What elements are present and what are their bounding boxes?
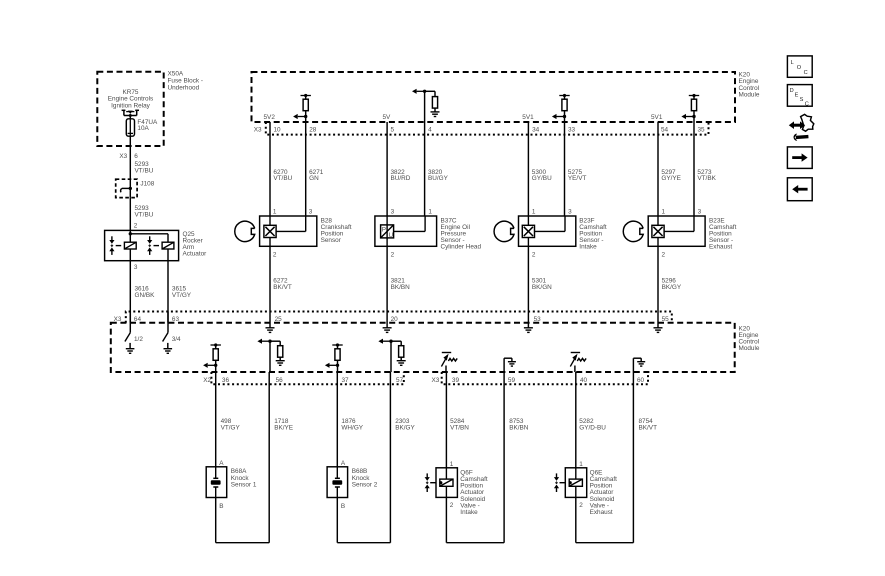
solenoid Q25 left — [129, 234, 131, 243]
ground internal pin 55 — [657, 312, 659, 328]
svg-text:56: 56 — [276, 377, 284, 384]
connector X2 bottom strip dotted outline — [211, 372, 403, 384]
svg-text:VT/GY: VT/GY — [221, 425, 241, 432]
svg-text:Sensor: Sensor — [321, 237, 342, 244]
switch internal 1/2 pin 64 — [129, 312, 131, 323]
resistor internal pull-up pin 36 — [211, 344, 221, 346]
splice J108 symbol — [121, 188, 122, 192]
svg-text:3: 3 — [134, 264, 138, 271]
driver internal pin 40 — [574, 366, 576, 373]
svg-text:Sensor 2: Sensor 2 — [352, 482, 378, 489]
svg-text:BK/VT: BK/VT — [639, 425, 658, 432]
svg-text:U: U — [389, 232, 394, 239]
wire 5296 BK/GY — [657, 246, 659, 311]
resistor internal pull-up pin 33 — [559, 95, 569, 97]
svg-text:1/2: 1/2 — [134, 336, 143, 343]
svg-text:Ignition Relay: Ignition Relay — [111, 102, 151, 109]
svg-text:54: 54 — [661, 127, 669, 134]
ground internal pin 25 — [269, 312, 271, 328]
svg-text:59: 59 — [508, 377, 516, 384]
relay KR75 contact symbol — [122, 109, 126, 111]
node Q25 internal junction — [129, 232, 132, 235]
sensor B23F camshaft position sensor intake — [519, 216, 576, 246]
svg-text:L: L — [791, 60, 794, 66]
svg-text:C: C — [805, 101, 809, 107]
svg-text:VT/GY: VT/GY — [172, 292, 192, 299]
svg-text:WH/GY: WH/GY — [341, 425, 363, 432]
icon DESC box — [787, 85, 812, 107]
wire 3821 BK/BN — [386, 246, 388, 311]
icon diagnostic tools — [801, 114, 814, 131]
wire 5297 GY/YE — [657, 122, 659, 216]
svg-text:Intake: Intake — [579, 243, 597, 250]
svg-text:GY/BU: GY/BU — [532, 175, 552, 182]
svg-text:C: C — [804, 70, 808, 76]
wire 2303 BK/GY — [389, 372, 391, 543]
svg-text:Underhood: Underhood — [168, 84, 200, 91]
svg-text:2: 2 — [134, 223, 138, 230]
svg-text:A: A — [341, 460, 346, 467]
resistor internal pull-down with ground pin 57 — [389, 340, 392, 343]
svg-text:B: B — [341, 503, 345, 510]
svg-text:J108: J108 — [140, 181, 154, 188]
wire Q25 internal — [130, 233, 168, 235]
wire knock sensor 1 loop — [215, 498, 217, 543]
svg-text:BK/GY: BK/GY — [662, 284, 682, 291]
wire 6270 VT/BU — [269, 122, 271, 216]
ground internal bracket pin 59 — [503, 358, 505, 372]
svg-text:Sensor 1: Sensor 1 — [231, 482, 257, 489]
wire through splice J108 — [129, 179, 131, 197]
resistor internal pull-up pin 35 — [689, 95, 699, 97]
solenoid Q6F camshaft position actuator solenoid valve intake — [436, 468, 457, 498]
svg-text:BK/GN: BK/GN — [532, 284, 552, 291]
svg-text:GY/D-BU: GY/D-BU — [579, 425, 606, 432]
svg-text:1: 1 — [428, 209, 432, 216]
svg-text:GN/BK: GN/BK — [135, 292, 156, 299]
wire 3820 BU/GY — [424, 122, 426, 216]
svg-text:60: 60 — [637, 377, 645, 384]
resistor internal pull-down with ground pin 4 — [424, 91, 426, 122]
svg-text:10: 10 — [274, 127, 282, 134]
svg-text:X3: X3 — [254, 127, 262, 134]
connector X3 bottom strip dotted outline — [442, 372, 648, 384]
svg-text:Exhaust: Exhaust — [709, 243, 732, 250]
ground internal pin 20 — [386, 312, 388, 328]
icon arrow left box — [787, 178, 812, 201]
wire 5284 VT/BN — [445, 372, 447, 468]
fuse F47UA 10A — [126, 119, 134, 136]
svg-text:Actuator: Actuator — [183, 251, 208, 258]
sensor B23E camshaft position sensor exhaust — [648, 216, 705, 246]
svg-text:3/4: 3/4 — [172, 336, 181, 343]
splice J108 dashed box — [116, 179, 137, 197]
svg-text:BU/RD: BU/RD — [391, 175, 411, 182]
svg-text:Module: Module — [739, 92, 760, 99]
wire Q6E loop — [575, 497, 577, 542]
svg-text:2: 2 — [579, 502, 583, 509]
svg-text:GN: GN — [309, 175, 319, 182]
svg-text:5: 5 — [391, 127, 395, 134]
svg-text:1: 1 — [662, 209, 666, 216]
icon LOC box — [787, 56, 812, 77]
svg-text:1: 1 — [532, 209, 536, 216]
resistor internal pull-down with ground pin 56 — [268, 340, 271, 343]
svg-text:VT/BK: VT/BK — [697, 175, 716, 182]
svg-text:1: 1 — [450, 461, 454, 468]
svg-text:BK/BN: BK/BN — [509, 425, 529, 432]
ground internal pin 4 — [431, 111, 440, 113]
wire 5282 GY/D-BU — [575, 372, 577, 468]
wire fuse to connector X3-6 — [129, 136, 131, 179]
svg-text:2: 2 — [273, 251, 277, 258]
ground internal pin 53 — [527, 312, 529, 328]
svg-text:X3: X3 — [119, 153, 127, 160]
sensor B68A knock sensor 1 — [206, 467, 227, 498]
svg-text:28: 28 — [309, 127, 317, 134]
svg-text:33: 33 — [568, 127, 576, 134]
fuse block X50A dashed box — [97, 72, 163, 146]
svg-text:BK/YE: BK/YE — [274, 425, 293, 432]
svg-text:P: P — [382, 226, 386, 233]
wire 5275 YE/VT — [564, 122, 566, 216]
sensor B28 crankshaft position sensor — [260, 216, 317, 246]
wire Q25 right to X3-63 — [167, 261, 169, 323]
switch internal 3/4 pin 63 — [167, 312, 169, 323]
actuator Q25 box — [105, 230, 179, 260]
wire J108 to Q25 — [129, 198, 131, 234]
svg-text:BK/BN: BK/BN — [391, 284, 411, 291]
wire 3822 BU/RD — [386, 122, 388, 216]
connector X3 middle strip dotted outline — [126, 312, 672, 323]
svg-text:3: 3 — [568, 209, 572, 216]
svg-text:3: 3 — [698, 209, 702, 216]
wire 5301 BK/GN — [527, 246, 529, 311]
wire 1876 WH/GY — [336, 372, 338, 467]
svg-text:D: D — [790, 88, 794, 94]
svg-text:2: 2 — [662, 251, 666, 258]
module K20 engine control module top dashed box — [252, 72, 736, 122]
wire 6272 BK/VT — [269, 246, 271, 311]
module K20 engine control module middle dashed box — [111, 323, 735, 372]
wire 1718 BK/YE — [268, 372, 270, 543]
svg-text:VT/BN: VT/BN — [450, 425, 469, 432]
wire relay to fuse — [129, 116, 131, 120]
wire 5273 VT/BK — [693, 122, 695, 216]
svg-text:X2: X2 — [203, 377, 211, 384]
svg-text:A: A — [219, 460, 224, 467]
svg-text:VT/BU: VT/BU — [135, 167, 154, 174]
wire 6271 GN — [305, 122, 307, 216]
wire knock sensor 2 loop — [336, 498, 338, 543]
svg-text:1: 1 — [579, 461, 583, 468]
svg-text:6: 6 — [134, 153, 138, 160]
wire Q6F loop — [445, 497, 447, 542]
svg-text:37: 37 — [342, 377, 350, 384]
svg-text:3: 3 — [391, 209, 395, 216]
sensor B68B knock sensor 2 — [327, 467, 348, 498]
wire 8754 BK/VT — [632, 372, 634, 543]
svg-text:4: 4 — [428, 127, 432, 134]
svg-text:57: 57 — [396, 377, 404, 384]
wire 5300 GY/BU — [527, 122, 529, 216]
svg-text:BK/VT: BK/VT — [273, 284, 292, 291]
svg-text:S: S — [800, 97, 804, 103]
svg-text:1: 1 — [273, 209, 277, 216]
svg-text:5V1: 5V1 — [522, 114, 534, 121]
svg-text:E: E — [795, 93, 799, 99]
svg-text:Intake: Intake — [460, 509, 478, 516]
svg-text:2: 2 — [532, 251, 536, 258]
svg-text:5V: 5V — [383, 114, 392, 121]
driver internal pin 39 — [445, 366, 447, 373]
svg-text:5V1: 5V1 — [651, 114, 663, 121]
svg-text:BK/GY: BK/GY — [395, 425, 415, 432]
resistor internal pull-up pin 28 — [301, 95, 311, 97]
svg-text:Exhaust: Exhaust — [590, 509, 613, 516]
wire 498 VT/GY — [215, 372, 217, 467]
svg-text:X3: X3 — [432, 377, 440, 384]
svg-text:O: O — [797, 65, 802, 71]
svg-text:2: 2 — [450, 502, 454, 509]
svg-text:GY/YE: GY/YE — [661, 175, 681, 182]
svg-text:5V2: 5V2 — [264, 114, 276, 121]
solenoid Q25 right — [167, 239, 169, 242]
sensor B37C engine oil pressure sensor — [375, 216, 437, 246]
ground internal bracket pin 60 — [632, 358, 634, 372]
svg-text:36: 36 — [222, 377, 230, 384]
svg-text:10A: 10A — [137, 125, 149, 132]
wire 8753 BK/BN — [503, 372, 505, 543]
svg-text:BU/GY: BU/GY — [428, 175, 449, 182]
svg-text:VT/BU: VT/BU — [273, 175, 292, 182]
svg-text:VT/BU: VT/BU — [135, 211, 154, 218]
svg-text:Module: Module — [739, 345, 760, 352]
svg-text:40: 40 — [580, 377, 588, 384]
svg-text:2: 2 — [391, 251, 395, 258]
svg-text:YE/VT: YE/VT — [568, 175, 587, 182]
svg-text:35: 35 — [698, 127, 706, 134]
connector X3 top strip dotted outline — [266, 122, 709, 135]
wire Q25 pin3 to X3-64 — [129, 261, 131, 323]
resistor internal pull-up pin 37 — [332, 344, 342, 346]
svg-text:39: 39 — [452, 377, 460, 384]
svg-text:34: 34 — [532, 127, 540, 134]
icon arrow right box — [787, 147, 812, 169]
svg-text:Cylinder Head: Cylinder Head — [441, 243, 482, 250]
svg-text:B: B — [219, 503, 223, 510]
solenoid Q6E camshaft position actuator solenoid valve exhaust — [565, 468, 586, 498]
svg-text:3: 3 — [309, 209, 313, 216]
